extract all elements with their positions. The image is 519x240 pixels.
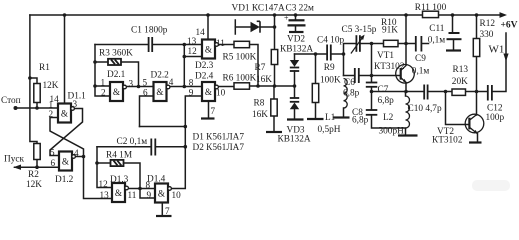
svg-text:6: 6	[143, 88, 148, 98]
svg-text:D1.2: D1.2	[55, 175, 74, 185]
node D2.1 output	[137, 85, 141, 89]
node rail VT1 drop	[404, 13, 408, 17]
varicap VD3 KB132A	[290, 98, 299, 102]
capacitor C4 10p	[327, 45, 331, 61]
wire D2.4 pin7 ground lead	[208, 101, 210, 118]
resistor R3 360K hatched	[108, 59, 121, 65]
svg-text:1: 1	[49, 100, 54, 110]
resistor R12 330	[473, 39, 479, 57]
svg-text:1: 1	[101, 78, 106, 88]
gate D1.1	[58, 104, 74, 123]
wire C3 top lead from rail	[295, 15, 297, 20]
ground for R9	[307, 118, 324, 120]
svg-text:20K: 20K	[452, 77, 468, 87]
svg-text:12K: 12K	[43, 81, 59, 91]
svg-text:VD2: VD2	[287, 35, 305, 45]
capacitor C6 6,8p	[355, 68, 359, 83]
wire VD2 top lead	[294, 54, 296, 60]
resistor R13 20K	[452, 89, 466, 95]
wire R13 left lead	[446, 91, 453, 93]
svg-text:3: 3	[73, 99, 78, 109]
transistor VT2 KT3102	[465, 114, 484, 134]
wire R10 right to collector node	[398, 43, 415, 45]
ground for C11	[446, 49, 461, 51]
wire D1.2 output down to D1.3 pin13	[84, 157, 113, 199]
capacitor C8 6,8p	[366, 110, 378, 115]
wire R4 left lead	[97, 162, 111, 164]
svg-text:VT1: VT1	[377, 51, 394, 61]
svg-text:Пуск: Пуск	[4, 155, 24, 165]
wire VT1 base lead	[372, 75, 401, 77]
wire column C7 to C8	[371, 87, 373, 109]
wire R3 left lead	[95, 61, 108, 63]
wire C6 left lead	[344, 75, 354, 77]
ground for D2.4 pin7	[201, 117, 215, 119]
node D1.3 output	[138, 187, 142, 191]
svg-text:C5 3-15p: C5 3-15p	[342, 25, 377, 35]
node D2.2 pin6 tap	[184, 125, 188, 129]
node rail D2 pin14	[206, 13, 210, 17]
wire L1 bottom lead	[343, 108, 345, 117]
svg-text:13: 13	[187, 36, 197, 46]
node D2.3 pin12	[183, 55, 187, 59]
wire R10 left lead	[372, 43, 384, 45]
resistor R2 12K	[34, 144, 40, 160]
wire left supply branch down to R2	[30, 15, 37, 144]
svg-text:R4 1M: R4 1M	[106, 151, 132, 161]
wire R9 top lead	[315, 54, 317, 84]
svg-text:2: 2	[49, 109, 54, 119]
ground for R8	[266, 131, 282, 133]
wire VD3 top lead	[294, 86, 296, 98]
wire R1 supply tap	[30, 78, 37, 84]
wire R3 right lead down to D2.1 output	[121, 62, 139, 87]
ground for L1	[334, 116, 350, 118]
gate D1.4	[155, 184, 171, 203]
svg-text:D2.2: D2.2	[151, 71, 170, 81]
wire capacitor column C5 to C7	[371, 44, 373, 83]
wire VT1 collector lead	[405, 44, 407, 66]
Stop terminal	[14, 106, 18, 110]
svg-text:12K: 12K	[26, 180, 42, 190]
wire D2.1 pin1 tap	[95, 85, 110, 87]
wire D1.4 pin9 tie	[140, 189, 155, 199]
wire D2.3 pin12 tie	[183, 45, 185, 88]
wire D2.4 output to R6	[219, 86, 234, 88]
gate D2.4	[202, 82, 218, 101]
svg-text:C10 4,7p: C10 4,7p	[408, 104, 442, 114]
node R4 left	[95, 161, 99, 165]
svg-text:Стоп: Стоп	[1, 96, 21, 106]
resistor R10 91K	[384, 40, 399, 46]
node D2.1 pin1	[93, 84, 97, 88]
capacitor C12 100p	[488, 85, 492, 101]
ground for C3	[289, 31, 304, 33]
wire R1 bottom lead	[36, 103, 38, 109]
svg-text:C12: C12	[487, 104, 503, 114]
svg-text:C6: C6	[344, 78, 355, 88]
gate D2.2	[154, 82, 170, 101]
wire R9 bottom lead	[315, 103, 317, 119]
wire C2 top left	[97, 146, 150, 148]
svg-text:11: 11	[128, 190, 137, 200]
svg-text:C4 10p: C4 10p	[317, 36, 344, 46]
svg-text:D1.3: D1.3	[110, 175, 129, 185]
wire D2.3 pin12 stub	[184, 56, 202, 58]
wire D1.2 output cross-coupling to D1.1 pin2	[50, 118, 84, 157]
wire VT1 emitter lead	[405, 83, 407, 92]
wire node B down to C6 and L1	[343, 54, 345, 76]
wire C11 drop from rail	[452, 15, 454, 33]
wire C4 right to tank node B	[332, 53, 344, 55]
wire R7 bottom to bias node	[274, 65, 276, 87]
svg-text:C2 0,1м: C2 0,1м	[117, 137, 148, 147]
wire D2.2 pin6 riser	[140, 96, 154, 127]
node R5 R6 join	[256, 84, 260, 88]
node C2 right	[184, 145, 188, 149]
node R2 bottom	[35, 165, 39, 169]
wire D2.1 input node vertical	[95, 45, 110, 97]
svg-text:L1: L1	[325, 113, 336, 123]
node D2.2 output	[183, 85, 187, 89]
svg-text:7: 7	[165, 206, 170, 216]
wire Pusk input line to D1.2 pin6	[15, 166, 60, 168]
wire VT2 base node down and to base	[446, 92, 470, 125]
wire Stop input line to D1.1 pin1	[16, 107, 59, 109]
scan smudge artifact	[472, 180, 510, 191]
wire R5 right corner down to varicap bias node	[250, 45, 259, 87]
svg-text:R9: R9	[324, 63, 335, 73]
svg-text:D2.1: D2.1	[107, 70, 126, 80]
gate D2.3	[202, 40, 218, 59]
svg-text:R1: R1	[39, 63, 50, 73]
svg-text:R7: R7	[255, 63, 266, 73]
wire column below C8 to L2 ground	[372, 115, 406, 134]
wire C12 right to antenna riser	[493, 33, 506, 92]
svg-text:100K: 100K	[320, 76, 341, 86]
node R7 R8	[273, 84, 277, 88]
wire VT2 emitter lead to ground	[477, 134, 479, 143]
zener diode VD1 KC147A	[251, 22, 260, 32]
svg-text:КВ132А: КВ132А	[280, 45, 313, 55]
resistor R9 100K	[312, 84, 318, 103]
svg-text:0,1м: 0,1м	[412, 67, 430, 77]
node rail R12	[475, 13, 479, 17]
ground for VT2 emitter	[469, 141, 482, 143]
svg-text:R11 100: R11 100	[415, 3, 447, 13]
svg-text:W1: W1	[489, 44, 505, 56]
node rail D1 pin14	[63, 13, 67, 17]
svg-text:9: 9	[189, 88, 194, 98]
wire D1 pin14 power line	[64, 15, 66, 104]
svg-text:13: 13	[100, 190, 110, 200]
svg-text:10: 10	[216, 88, 226, 98]
gate D1.3	[112, 183, 128, 202]
node VD1 R7	[273, 25, 277, 29]
node C1 right	[183, 43, 187, 47]
svg-text:2: 2	[101, 88, 106, 98]
svg-text:10: 10	[172, 190, 182, 200]
capacitor C5 3-15p trimmer with arrow	[356, 35, 360, 52]
svg-text:9: 9	[147, 190, 152, 200]
wire R2 bottom lead	[36, 160, 38, 168]
node R3 left	[93, 60, 97, 64]
resistor R4 1M hatched	[111, 160, 124, 166]
node dots	[28, 13, 478, 190]
svg-text:R5 100K: R5 100K	[223, 53, 257, 63]
ground for L2 and C8	[398, 134, 418, 136]
wire C11 bottom lead to ground	[453, 40, 455, 51]
wire D2.1 output to D2.2 pin5	[127, 86, 154, 88]
svg-text:R3 360K: R3 360K	[99, 49, 133, 59]
svg-text:16K: 16K	[252, 110, 268, 120]
capacitor C9 0,1m	[416, 36, 422, 52]
svg-text:12: 12	[99, 179, 109, 189]
ground for VD3	[287, 118, 304, 120]
svg-text:8: 8	[189, 78, 194, 88]
svg-text:5: 5	[50, 148, 55, 158]
resistor R5 100K	[234, 41, 250, 47]
wire D2 pin14 power line	[207, 15, 209, 40]
svg-text:КТ3102: КТ3102	[374, 62, 405, 72]
antenna W1 arrow	[503, 54, 508, 62]
svg-text:6: 6	[51, 158, 56, 168]
wire rail to VD1 node to R7	[274, 15, 276, 50]
capacitor C1 1800p	[149, 37, 153, 52]
capacitor C11 0,1m	[447, 33, 462, 39]
svg-text:0,1м: 0,1м	[428, 36, 446, 46]
svg-text:0,5pH: 0,5pH	[318, 125, 341, 135]
resistor R11 100 in rail	[423, 11, 439, 17]
wire D2.2 output to D2.4 pin8	[169, 86, 202, 88]
inductor L2 300uH	[406, 96, 410, 128]
svg-text:D1 К561ЛА7: D1 К561ЛА7	[193, 133, 245, 143]
svg-text:VD1 КС147А: VD1 КС147А	[232, 4, 286, 14]
svg-text:300pH: 300pH	[379, 127, 405, 137]
resistor R1 12K	[34, 84, 40, 103]
svg-text:100p: 100p	[486, 113, 505, 123]
svg-text:C11: C11	[429, 24, 445, 34]
wire +5V top rail left section	[30, 14, 423, 16]
varicap VD2 KB132A	[290, 60, 299, 67]
svg-text:R12: R12	[480, 19, 496, 29]
wire VD3 bottom lead to ground	[294, 110, 296, 119]
capacitor C10 4,7p	[424, 85, 427, 100]
svg-text:D2.4: D2.4	[195, 72, 214, 82]
svg-text:91K: 91K	[382, 26, 398, 36]
node D1.2 output	[82, 155, 86, 159]
node emitter column	[370, 90, 374, 94]
wire C9 right stub	[422, 43, 428, 45]
wire D1.3 output to D1.4 pin8	[127, 188, 155, 190]
node rail C3	[294, 13, 298, 17]
node rail VD1 branch	[273, 13, 277, 17]
svg-text:7: 7	[211, 106, 216, 116]
node B C4 right	[342, 52, 346, 56]
wire C5 right to column	[361, 43, 372, 45]
wire C2 right	[156, 146, 185, 148]
node VT1 emitter L2	[404, 90, 408, 94]
wire D1.4 output up to C2 node and D2.4 pin9	[172, 96, 202, 189]
svg-text:330: 330	[480, 30, 494, 40]
wire VD2 to mid node	[294, 71, 296, 86]
wire C2 left node vertical to R4 and D1.3 pin12	[97, 147, 112, 188]
gate D2.1	[110, 82, 126, 101]
svg-text:L2: L2	[383, 113, 394, 123]
svg-text:R8: R8	[254, 99, 265, 109]
transistor VT1 KT3102	[396, 65, 415, 84]
node R1 top tap	[28, 76, 32, 80]
svg-text:C3 22м: C3 22м	[286, 4, 314, 14]
wire C12 left lead	[477, 91, 488, 93]
svg-text:R2: R2	[28, 170, 39, 180]
svg-text:6,8p: 6,8p	[378, 96, 395, 106]
wire modulation node A horizontal	[295, 53, 327, 55]
wire R4 right lead down to D1.3 output node	[124, 163, 141, 189]
svg-text:КТ3102: КТ3102	[432, 136, 463, 146]
wire D1.4 pin7 ground lead	[161, 203, 163, 216]
svg-text:4: 4	[74, 148, 79, 158]
Pusk terminal arrow	[13, 165, 21, 170]
capacitor C2 0,1m	[151, 139, 155, 156]
gate D1.2	[59, 152, 75, 171]
wire C3 bottom lead to ground	[295, 26, 297, 32]
wire D1.2 output	[74, 156, 84, 158]
wire rail drop to VT1 collector node	[405, 15, 407, 44]
wire node B up to C5 level	[344, 44, 356, 55]
wire R6 right to varicap chain mid node	[250, 85, 295, 87]
node varicap mid	[293, 84, 297, 88]
node VT1 base C6	[370, 74, 374, 78]
resistor R6 100K	[234, 83, 250, 89]
wire C1 right to D2.3 pin13	[153, 44, 202, 46]
svg-text:11: 11	[216, 38, 225, 48]
node VT2 base	[444, 90, 448, 94]
node VT2 collector	[475, 90, 479, 94]
svg-text:C7: C7	[378, 85, 389, 95]
svg-text:КВ132А: КВ132А	[278, 135, 311, 145]
wire R13 right lead	[466, 91, 477, 93]
wire VT2 collector lead	[476, 92, 478, 116]
wire VD1 cathode to R7 node	[260, 26, 275, 28]
resistor R8 16K	[271, 99, 277, 116]
svg-text:8: 8	[146, 180, 151, 190]
wire R8 bottom lead	[273, 116, 275, 132]
svg-text:R13: R13	[453, 65, 469, 75]
wire +5V top rail right section with supply arrow	[439, 14, 503, 16]
node R1 bottom	[35, 106, 39, 110]
wire D2.2 pin6 gating from LF oscillator	[140, 126, 186, 128]
+5V rail arrow	[500, 12, 508, 18]
wire R8 top lead	[273, 86, 275, 99]
wire VT1 emitter node	[372, 91, 424, 93]
svg-text:R6 100K: R6 100K	[223, 74, 257, 84]
svg-text:+6V: +6V	[501, 21, 518, 31]
svg-text:D2.3: D2.3	[195, 61, 214, 71]
wire L2 top lead	[405, 92, 407, 97]
svg-text:6,8p: 6,8p	[352, 116, 369, 126]
wire VD1 anode lead	[235, 26, 250, 28]
wire VD1 anode stub bar	[234, 20, 236, 34]
node rail C11	[451, 13, 455, 17]
wire C1 left from D2.1 input node	[95, 44, 148, 46]
svg-text:6,8p: 6,8p	[343, 89, 360, 99]
wire R12 top lead from rail	[476, 15, 478, 39]
resistor R7 16K	[271, 50, 277, 65]
svg-text:16K: 16K	[256, 75, 272, 85]
ground for D1.4 pin7	[156, 215, 172, 217]
svg-text:3: 3	[129, 79, 134, 89]
wire C10 right to VT2 base node	[429, 91, 446, 93]
node C5 right column	[370, 42, 374, 46]
svg-text:+: +	[284, 14, 289, 23]
svg-text:12: 12	[188, 46, 198, 56]
inductor L1 0,5mH	[344, 79, 348, 109]
svg-text:C9: C9	[415, 54, 426, 64]
wire C6 right lead	[360, 75, 372, 77]
wire D1.1 output to cross-coupling	[50, 109, 83, 156]
svg-text:14: 14	[196, 27, 206, 37]
svg-text:D2 К561ЛА7: D2 К561ЛА7	[193, 143, 245, 153]
svg-text:5: 5	[143, 78, 148, 88]
svg-text:4: 4	[169, 77, 174, 87]
node VT1 collector	[404, 42, 408, 46]
capacitor C7 6,8p	[366, 83, 378, 87]
wire D2.3 output to R5	[219, 44, 234, 46]
node R9 top	[314, 52, 318, 56]
wire R12 bottom to VT2 collector node	[476, 57, 478, 92]
capacitor C3 22m electrolytic	[288, 20, 306, 25]
svg-text:C1 1800p: C1 1800p	[131, 26, 168, 36]
